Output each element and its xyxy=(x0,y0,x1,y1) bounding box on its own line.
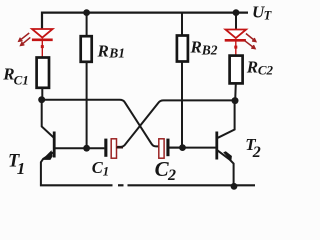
svg-text:1: 1 xyxy=(103,163,110,178)
svg-text:2: 2 xyxy=(252,144,261,161)
svg-text:C1: C1 xyxy=(14,72,29,87)
svg-text:B2: B2 xyxy=(201,42,218,57)
svg-text:C2: C2 xyxy=(258,63,274,78)
svg-text:R: R xyxy=(97,41,109,60)
svg-text:T: T xyxy=(264,8,273,22)
svg-text:B1: B1 xyxy=(108,45,125,60)
svg-text:R: R xyxy=(246,57,258,76)
svg-text:R: R xyxy=(190,38,202,57)
svg-text:2: 2 xyxy=(167,167,176,184)
svg-text:1: 1 xyxy=(17,159,26,178)
